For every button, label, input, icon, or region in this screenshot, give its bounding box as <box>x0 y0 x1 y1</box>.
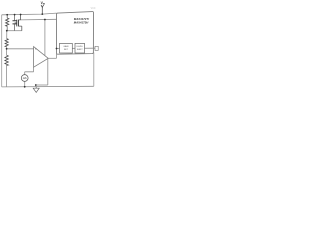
wire: drain-node drop to op-amp top edge <box>44 20 46 56</box>
wire: node A horizontal <box>7 30 22 32</box>
resistor R2 <box>5 39 8 47</box>
wire: R3 top lead <box>6 49 8 55</box>
wire: non-inverting input <box>7 48 34 50</box>
wire: R1 bottom lead <box>6 26 8 31</box>
wire: pin wire inside block redrawn <box>57 47 94 49</box>
wire: node A down to R2 top <box>6 31 8 39</box>
wire: block left edge extension to output <box>56 54 58 58</box>
svg-text:LEVEL: LEVEL <box>76 46 83 48</box>
sub-block box2 <box>75 43 85 53</box>
IC block U2 <box>57 12 94 55</box>
transistor Q1 gate bar <box>16 20 18 27</box>
wire: capacitor top lead <box>14 15 16 21</box>
wire: current source bottom stem <box>24 81 26 86</box>
node dot: node A <box>6 30 8 32</box>
node dot: supply entry on rail <box>41 13 43 15</box>
node dot: current source on rail <box>24 86 26 88</box>
node dot: pin wire on block edge <box>56 48 58 50</box>
node dot: wire B tee to op-amp supply <box>44 19 46 21</box>
transistor Q1 channel bar <box>18 20 20 27</box>
op-amp plus sign <box>35 48 36 49</box>
wire: supply entry stem <box>41 7 43 14</box>
svg-text:SHIFT: SHIFT <box>77 49 84 51</box>
resistor R1 <box>6 18 9 26</box>
node dot: feedback/ground <box>35 84 37 86</box>
wire: feedback horizontal to ground node <box>36 84 48 86</box>
svg-text:VCC: VCC <box>91 8 96 10</box>
op-amp U1 <box>34 47 49 68</box>
wire: ground node stem <box>35 85 37 87</box>
wire: R3 bottom lead to rail <box>6 65 8 87</box>
wire: pin wire through boxes <box>57 47 96 49</box>
supply arrow head <box>41 5 44 8</box>
wire: capacitor bottom lead <box>14 24 16 30</box>
current source CS1 <box>21 75 28 82</box>
sub-block box1 <box>60 43 73 53</box>
wire: mosfet gate stub <box>15 22 17 24</box>
wire: mosfet source lead <box>19 26 22 31</box>
wire: left border down <box>1 15 3 87</box>
wire: op-amp output <box>48 57 56 59</box>
wire: feedback from output down <box>47 59 49 85</box>
capacitor C1 <box>13 21 17 24</box>
wire: top supply rail <box>2 13 57 15</box>
svg-text:GAIN: GAIN <box>63 45 69 48</box>
svg-text:MAX4173H: MAX4173H <box>74 20 89 24</box>
node dot: R1 top on rail <box>6 14 8 16</box>
pin box on right edge <box>95 46 98 50</box>
wire: R2 bottom lead to +input node <box>6 47 8 49</box>
wire: R1 top lead <box>6 15 8 18</box>
node dot: cap top on rail <box>14 14 16 16</box>
wire: mosfet drain lead <box>19 15 21 20</box>
wire: drain node to block (wire B) <box>21 18 57 21</box>
node dot: +input tee <box>6 48 8 50</box>
wire: current source top stem <box>25 67 34 74</box>
resistor R3 <box>5 55 8 65</box>
svg-text:12k: 12k <box>23 76 28 80</box>
wire: right side down wire <box>93 53 95 87</box>
node dot: drain on rail <box>20 14 22 16</box>
ground <box>33 87 39 93</box>
wire: bottom ground rail <box>2 85 94 88</box>
svg-text:SET: SET <box>64 49 69 51</box>
